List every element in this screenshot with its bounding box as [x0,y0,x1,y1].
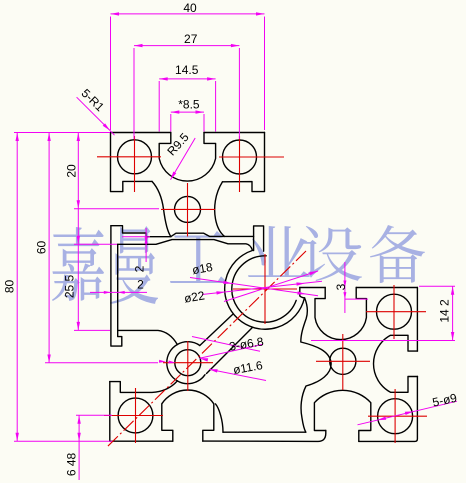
stem bottom chamfers and web top surface [171,233,254,236]
dimension 8.5 slot opening [170,114,172,132]
screw tube bore dia18 (open at top-right) [232,256,296,322]
top T-slot of right block [315,288,366,340]
tunnel left wall above plate [216,404,224,432]
centerlines tube [233,288,297,290]
svg-text:25 5: 25 5 [63,274,77,298]
svg-text:80: 80 [3,280,17,294]
dimension 27 between hole centers [133,48,135,139]
bottom T-slot left (downward) [162,390,214,441]
neck fin above tube [254,226,264,251]
leader 5-R1 corner fillets [77,97,110,130]
wall lower inner ledge [118,330,178,344]
profile top block outer edges [111,132,171,134]
side T-slot of right block [374,335,418,392]
svg-text:2: 2 [137,278,144,292]
dimension 14.2 right side [419,285,455,287]
right block left edge and junction to tube [300,288,305,298]
svg-text:3: 3 [334,283,348,290]
svg-text:60: 60 [35,241,49,255]
svg-text:6 48: 6 48 [65,452,79,476]
centerlines bottom-left hole [104,415,163,417]
centerlines right-top hole [366,311,426,313]
hole dia 6.8 upper [175,196,201,222]
boss outer dia11.6 left arc [167,345,178,381]
hole dia 6.8 right-middle [330,348,356,374]
centerlines stem hole [161,208,215,210]
centerlines boss hole [163,362,213,364]
leader R9.5 cavity radius [171,138,196,180]
hole dia 9 top-right [223,140,257,174]
hole dia 9 right-top [377,294,412,329]
centerlines right-bottom hole [368,415,427,417]
dimension 14.5 slot cavity width [158,81,160,132]
shelf bottom / web underside [118,240,253,251]
dimension 25.5 [77,209,79,331]
left waist concave arc [152,181,171,236]
strut lower edge [207,327,253,373]
svg-text:2: 2 [133,265,147,272]
right waist concave arc [215,182,225,237]
screw tube outer wall dia22 [225,251,305,330]
svg-text:20: 20 [65,164,79,178]
leader dia 18 tube bore [190,278,318,296]
svg-text:27: 27 [184,32,198,46]
svg-text:14 2: 14 2 [438,299,452,323]
diagonal dash-dot centerline [107,251,306,447]
boss outer top arc [177,342,200,346]
right block left waist pocket [301,298,331,432]
centerlines right-middle hole [316,360,370,362]
bottom web plate between slots [203,431,326,442]
svg-text:14.5: 14.5 [175,63,199,77]
centerlines top-left hole [97,156,161,158]
leader dia 22 tube outer [202,281,322,294]
dimension 20 [77,133,79,209]
right block right face [359,288,418,442]
dimension 3 lip depth [344,262,346,313]
dimension 40 with extension lines [110,17,112,131]
bottom-left block [110,381,178,393]
shelf top steps [111,226,171,237]
dimension chain 6 and 48 [78,415,80,480]
leader 5x dia 9 holes [358,401,458,425]
watermark company text (vector glyphs) [52,225,425,304]
hole dia 6.8 middle-left [175,350,201,376]
dimension 2 shelf thickness [145,228,147,262]
hole dia 9 right-bottom [378,399,413,434]
bottom T-slot of right block (downward) [314,390,370,441]
dimension 60 [48,133,50,364]
strut upper edge [200,314,233,346]
svg-text:40: 40 [183,1,197,15]
dimension 2 wall thickness [90,291,147,293]
boss outer bottom-right arc [177,375,205,384]
svg-text:*8.5: *8.5 [178,98,200,112]
hole dia 9 top-left [118,140,152,174]
left thin wall with bottom hook [111,226,122,346]
leader dia 11.6 boss [209,369,266,380]
top T-slot of upper block [159,133,215,182]
hole dia 9 bottom-left [118,398,153,433]
right block top face [300,287,418,289]
centerlines top-right hole [219,156,284,158]
leader line through tube center [224,271,318,302]
dimension 80 overall height [14,132,110,134]
leader 3x dia 6.8 holes [200,344,264,358]
